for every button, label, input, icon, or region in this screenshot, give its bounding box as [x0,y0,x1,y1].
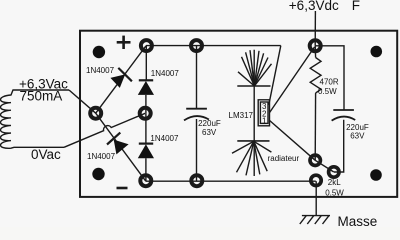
terminal T3 [310,40,321,51]
wire P3 to ground [315,181,317,215]
svg-text:470R: 470R [320,78,339,87]
potentiometer pad P2 [329,167,339,177]
wire top + rail [146,45,281,47]
wire D2 to node B [145,95,147,113]
wire T3 right to C2 drop [315,46,344,110]
wire bottom - rail [146,180,316,182]
wire +6,3Vac to node A [69,90,96,113]
wire output label drop [314,11,316,46]
svg-text:radiateur: radiateur [268,154,300,163]
svg-text:0.5W: 0.5W [325,189,344,198]
terminal T7 [191,175,202,186]
op-amp U1 LM317 body [258,100,269,126]
wire D4 to T6 [145,158,147,181]
node A terminal [90,108,101,119]
capacitor C1 [184,109,209,121]
terminal T6 [140,175,151,186]
mounting hole bottom-left [92,168,104,180]
wire node B to D4 [145,113,147,143]
svg-text:1N4007: 1N4007 [151,69,180,78]
svg-text:220uF: 220uF [198,119,221,128]
svg-text:1N4007: 1N4007 [150,134,179,143]
resistor R1 470R zigzag [310,58,321,94]
wire C1 to T7 [196,119,198,181]
diode D4 [138,144,154,159]
minus sign [117,187,128,190]
diode D1 [110,68,131,88]
svg-text:+6,3Vdc: +6,3Vdc [289,0,339,13]
wire T2 to C1 [196,46,198,109]
plus sign [117,36,131,49]
svg-text:63V: 63V [202,128,217,137]
svg-text:1N4007: 1N4007 [87,152,116,161]
svg-text:2kL: 2kL [328,178,341,187]
wire R1 to P1 [314,93,316,160]
wire D1 diagonal node A to + [96,46,146,113]
wire C2 to P2 [334,120,344,172]
svg-text:63V: 63V [350,132,365,141]
diode D3 [107,133,129,155]
capacitor C2 [332,110,356,121]
heatsink bottom fan [232,141,271,176]
ground Masse symbol [300,216,330,224]
diode D2 [138,80,154,95]
svg-text:Masse: Masse [338,214,378,227]
node B terminal [140,108,151,119]
svg-text:750mA: 750mA [20,89,63,104]
mounting hole top-left [93,46,105,58]
svg-text:1: 1 [262,117,267,126]
wire VIN diagonal to pin3 [269,46,281,105]
wire T1 to D2 [145,46,147,81]
svg-text:0.5W: 0.5W [318,87,337,96]
svg-text:LM317: LM317 [229,111,254,120]
wire T3 to resistor R1 [314,46,316,58]
heatsink vertical line [253,50,255,176]
svg-text:F: F [352,0,360,13]
potentiometer pad P1 [310,155,320,165]
wire 0Vac to node B with hop [64,113,145,147]
svg-text:0Vac: 0Vac [31,147,61,162]
terminal T1 [141,40,152,51]
wire D3 diagonal - to node A [96,113,146,181]
mounting hole bottom-right [370,169,382,181]
board outline [80,31,397,197]
wire VOUT pin2 to T3 [270,47,315,113]
heatsink top fan [237,50,271,86]
wire ADJ pin1 to P1 [270,121,316,161]
potentiometer pad P3 [311,175,321,185]
terminal T2 [191,40,202,51]
mounting hole top-right [371,46,383,58]
transformer secondary coil [1,90,70,148]
wire P1 to P2 [315,160,334,172]
svg-text:1N4007: 1N4007 [86,66,115,75]
